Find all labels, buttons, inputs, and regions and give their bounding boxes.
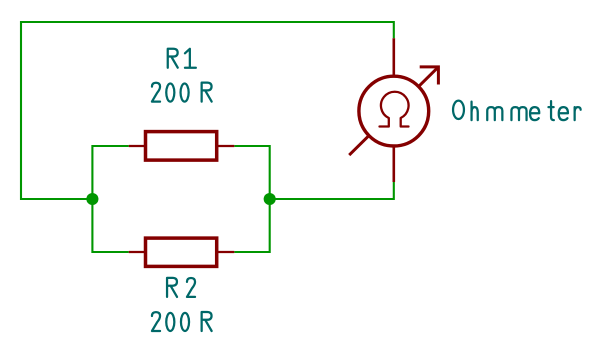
resistor R1 pins (129, 145, 235, 147)
wire left node up to R1 left pin (92, 146, 128, 199)
resistor R1 value 200R (152, 83, 212, 102)
junction right node (264, 193, 276, 205)
ohmmeter omega symbol (380, 92, 409, 127)
resistor R2 reference label R2 (167, 278, 195, 297)
ohmmeter arrow shaft (drawn under body circle) (349, 67, 438, 155)
resistor R1 reference label R1 (168, 49, 196, 68)
wire left side down to lower-left corner and to left node (21, 21, 92, 199)
resistor R1 body (146, 132, 217, 161)
wire right node to ohmmeter bottom pin (270, 182, 394, 199)
ohmmeter pins vertical (drawn under body circle) (392, 38, 395, 182)
ohmmeter label Ohmmeter (453, 101, 581, 120)
wire top from left corner to ohmmeter drop (21, 22, 394, 38)
junction left node (86, 193, 98, 205)
resistor R2 pins (129, 251, 235, 253)
ohmmeter arrow head (420, 67, 439, 85)
wire R2 right pin to right node (234, 199, 269, 252)
wire left node down to R2 left pin (92, 199, 128, 252)
ohmmeter body circle (359, 76, 429, 146)
resistor R2 body (146, 238, 217, 266)
wire R1 right pin to right node (234, 146, 269, 199)
resistor R2 value 200R (152, 312, 212, 331)
